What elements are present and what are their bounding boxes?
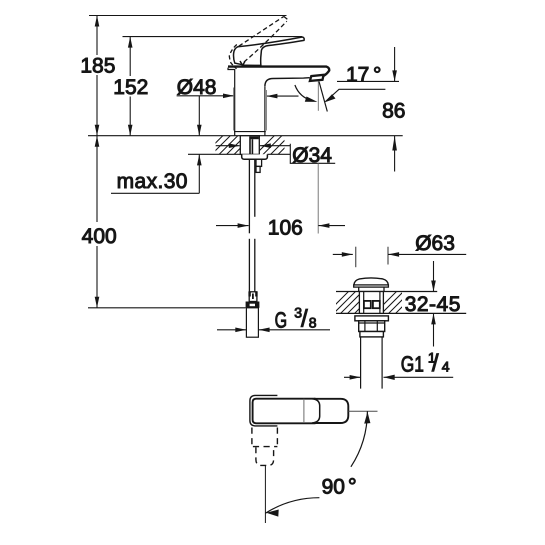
shank through deck: [240, 136, 259, 155]
dashed raised handle rear: [229, 45, 237, 69]
svg-text:400: 400: [82, 225, 117, 248]
hole dim arrows (Ø34): [216, 145, 240, 147]
drain deck hatching left: [324, 290, 385, 316]
arc bottom arrowhead: [266, 510, 279, 517]
arrow up 400 top: [95, 136, 100, 147]
deck hatching right band: [254, 134, 299, 156]
spout underside: [265, 78, 310, 87]
drain flange neck: [359, 287, 384, 291]
max.30 down arrow (deck top): [198, 96, 200, 136]
svg-text:32-45: 32-45: [405, 293, 461, 316]
drain: deck top line: [336, 291, 437, 293]
svg-text:G1: G1: [401, 351, 424, 376]
Ø48 extension lines: [233, 88, 235, 131]
svg-text:G: G: [275, 307, 288, 332]
deck bottom line right: [267, 153, 290, 155]
top reference line A (185 level): [89, 15, 287, 17]
drain bottom washer: [360, 332, 384, 337]
deck bottom line left: [188, 153, 242, 155]
arrow down 185 bottom: [95, 125, 100, 136]
17° leader to stream: [326, 89, 386, 101]
dimension 86 bottom arrow: [394, 136, 396, 172]
svg-text:185: 185: [80, 55, 115, 78]
arc top arrowhead: [364, 412, 370, 424]
drain: deck bottom line: [336, 312, 466, 314]
Ø48 dim line left with arrow: [177, 95, 234, 97]
dimension 106 right arrow: [318, 225, 345, 227]
supply hose lower: [248, 239, 250, 292]
arrow up 152 top: [128, 37, 133, 48]
svg-text:17: 17: [346, 63, 369, 86]
arrow down 400 bottom: [95, 297, 100, 308]
dimension 185 vertical line: [96, 16, 98, 136]
dimension 400 vertical line: [96, 136, 98, 308]
flange under deck: [242, 154, 268, 159]
Ø34 leader vertical: [317, 163, 319, 233]
Ø63 dim line left arrow: [333, 253, 353, 255]
G1 1/4 dim arrows: [344, 376, 361, 378]
baseline bottom reference: [88, 307, 246, 309]
deck hatching left band: [203, 134, 255, 156]
deck top line: [88, 135, 403, 137]
step piece 1: [256, 159, 262, 166]
max.30 up arrow (deck bottom): [198, 154, 200, 193]
flow arc with arrowhead: [295, 85, 313, 101]
faucet body column right edge: [264, 86, 266, 135]
drain deck hatching right: [372, 290, 426, 316]
Ø63 dim line right arrow + underline: [388, 253, 466, 255]
dashed raised handle lower edge: [244, 21, 287, 62]
svg-text:°: °: [373, 63, 381, 86]
cap left lip: [228, 68, 235, 70]
90° arc upper segment: [351, 411, 368, 467]
handle plan view: arm right bulge: [312, 399, 320, 423]
water stream vertical reference (upper): [317, 82, 319, 111]
shank inner vertical pair: [249, 136, 251, 154]
dimension 32-45 top arrow: [433, 261, 435, 292]
svg-text:4: 4: [442, 358, 450, 374]
G3/8 collar: [249, 292, 257, 302]
90° arc lower segment: [265, 498, 319, 514]
supply hose upper: [248, 159, 250, 233]
dimension 106 left arrow: [216, 225, 249, 227]
dashed raised handle tip: [284, 16, 288, 21]
svg-text:max.30: max.30: [117, 170, 188, 193]
dashed raised handle top edge: [239, 16, 284, 46]
17° underline: [337, 80, 399, 82]
drain body in deck: [359, 292, 383, 314]
svg-text:/: /: [301, 306, 308, 333]
step piece 2: [256, 166, 260, 172]
svg-text:106: 106: [268, 216, 303, 239]
plan view horizontal reference: [348, 410, 377, 412]
drain cap base disk: [354, 285, 389, 287]
svg-text:°: °: [348, 474, 357, 499]
solid handle: [234, 37, 305, 65]
svg-text:Ø63: Ø63: [415, 232, 455, 255]
svg-text:152: 152: [113, 76, 148, 99]
faucet body column left edge: [234, 69, 236, 136]
reference line B (152 level): [123, 36, 303, 38]
svg-text:8: 8: [309, 314, 317, 330]
G3/8 tail pipe: [246, 308, 258, 337]
drain nut: [359, 321, 385, 332]
shank inner dark top: [250, 136, 259, 139]
plan view dashed shank cup: [256, 447, 274, 465]
faucet cap / spout top: [228, 67, 329, 76]
dimension 86 top arrow: [394, 47, 396, 81]
faucet base plate line: [234, 131, 266, 133]
handle plan view: division line: [303, 399, 305, 423]
svg-text:86: 86: [382, 99, 405, 122]
handle plan view: grip: [314, 399, 348, 423]
arrow down 152 bottom: [128, 125, 133, 136]
Ø48 dim line right with arrow: [266, 95, 298, 97]
handle pivot notch: [240, 61, 245, 65]
handle plan view: outer collar: [250, 395, 278, 426]
svg-text:90: 90: [322, 476, 345, 499]
arrow up 185 top: [95, 16, 100, 27]
dimension 152 vertical line: [129, 37, 131, 136]
plan view dashed body sides: [252, 428, 278, 448]
max.30 underline: [111, 192, 199, 194]
svg-text:/: /: [432, 350, 439, 377]
aerator: [310, 75, 324, 81]
drain cap dome: [354, 278, 388, 285]
plan view axis line: [264, 465, 266, 523]
Ø63 extension lines: [355, 247, 357, 268]
water stream slanted line: [319, 82, 327, 112]
G3/8 nut: [246, 302, 260, 308]
drain overflow windows: [364, 301, 371, 308]
dimension 32-45 bottom arrow: [433, 313, 435, 346]
drain washer below deck: [355, 316, 389, 321]
handle plan view: arm outline: [253, 399, 316, 424]
drain tail pipe: [361, 337, 383, 389]
G3/8 dim arrows: [217, 329, 246, 331]
